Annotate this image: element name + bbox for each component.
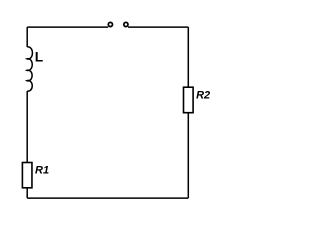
wire top-right horizontal <box>128 26 188 28</box>
inductor L <box>27 47 33 91</box>
wire top-left horizontal <box>27 26 108 28</box>
wire left vertical upper <box>26 27 28 47</box>
resistor R1 <box>22 163 32 188</box>
svg-text:R2: R2 <box>196 90 210 102</box>
switch terminal left <box>108 22 112 26</box>
switch terminal right <box>124 22 128 26</box>
svg-text:L: L <box>35 50 43 65</box>
wire left vertical middle <box>26 91 28 162</box>
wire left vertical lower <box>26 188 28 198</box>
wire bottom horizontal <box>27 197 188 199</box>
wire right vertical upper <box>187 27 189 87</box>
svg-text:R1: R1 <box>35 165 49 177</box>
resistor R2 <box>184 87 194 113</box>
wire right vertical lower <box>187 113 189 198</box>
